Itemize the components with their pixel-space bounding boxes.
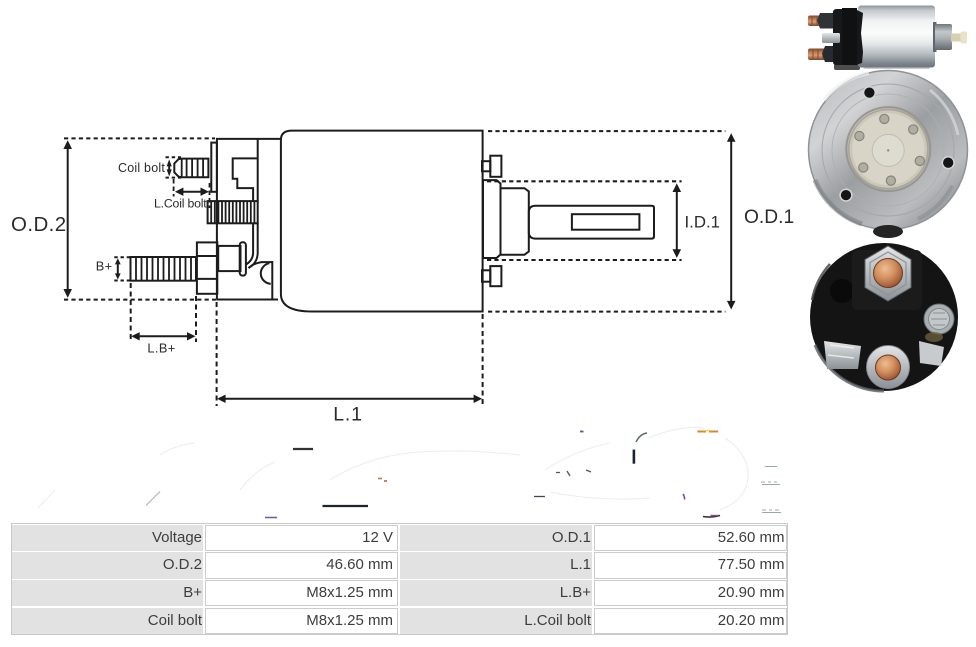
dimension O.D.1 (488, 131, 794, 312)
solenoid front housing (217, 139, 281, 300)
mounting bolt top (482, 156, 501, 177)
coil bolt (174, 159, 208, 178)
dimension L.1 (217, 302, 483, 426)
svg-text:L.B+: L.B+ (147, 341, 175, 356)
solenoid body cylinder (281, 131, 483, 312)
watermark remnants (38, 427, 781, 517)
dimension I.D.1 (487, 181, 720, 260)
B+ terminal bolt (131, 257, 197, 281)
housing tab (coil bolt bracket) (211, 143, 217, 192)
svg-text:Coil bolt: Coil bolt (118, 161, 165, 175)
photo: rear terminals (810, 225, 958, 391)
dimension L.B+ (131, 283, 196, 356)
svg-text:B+: B+ (96, 259, 113, 274)
B+ hex nut (197, 242, 217, 293)
dimension B+ (96, 257, 130, 280)
plunger slot (572, 214, 640, 230)
svg-text:I.D.1: I.D.1 (685, 212, 720, 231)
photo: front face disc (809, 71, 968, 230)
front flange step (501, 188, 529, 255)
coil bolt threaded bushing (208, 201, 258, 223)
svg-text:O.D.1: O.D.1 (744, 207, 794, 228)
dimension L.Coil bolt (154, 179, 209, 211)
B+ washer (218, 246, 240, 271)
dimension O.D.2 (11, 138, 217, 299)
specification table (11, 523, 788, 635)
svg-text:O.D.2: O.D.2 (11, 213, 67, 236)
svg-text:L.Coil bolt: L.Coil bolt (154, 197, 207, 211)
photo: solenoid side view (808, 6, 967, 71)
plunger shaft (529, 206, 654, 239)
dimension Coil bolt (118, 157, 181, 177)
svg-text:L.1: L.1 (333, 404, 363, 426)
B+ stud bar (240, 242, 246, 275)
mounting bolt bottom (482, 266, 501, 286)
front flange ring (483, 180, 501, 258)
